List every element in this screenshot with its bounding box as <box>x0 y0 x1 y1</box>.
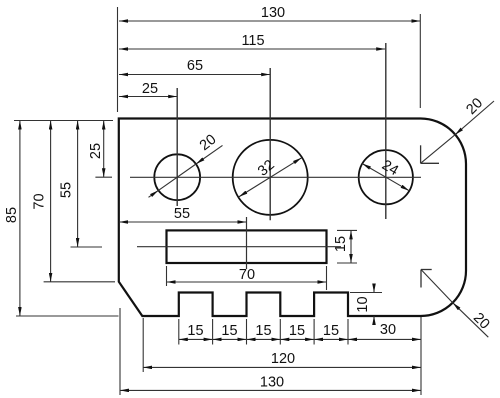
svg-text:15: 15 <box>221 323 237 339</box>
svg-text:55: 55 <box>59 182 75 198</box>
extension line left shared (top dims) <box>117 7 119 112</box>
svg-text:65: 65 <box>187 58 203 74</box>
teeth extension ticks <box>178 319 180 345</box>
dim 55 left <box>77 121 79 248</box>
svg-text:70: 70 <box>239 267 255 283</box>
extension line x=143 bottom (120) <box>142 318 144 372</box>
svg-text:130: 130 <box>261 5 285 21</box>
svg-text:15: 15 <box>333 236 349 252</box>
dim 70 slot width <box>167 281 327 283</box>
extension line right x=420 (130 top) <box>419 14 421 108</box>
svg-text:15: 15 <box>187 323 203 339</box>
svg-text:10: 10 <box>355 296 371 312</box>
vertical centerline circle C2 <box>269 68 271 220</box>
circle C1 diameter dim d20 leader <box>149 190 159 197</box>
svg-text:15: 15 <box>255 323 271 339</box>
hole circle C3 d24 <box>359 150 413 204</box>
extension line right x=421 bottom <box>420 317 422 395</box>
svg-text:55: 55 <box>174 206 190 222</box>
svg-text:85: 85 <box>4 207 20 223</box>
hole circle C2 d32 <box>233 140 308 215</box>
extension line top shared (left dims) <box>14 120 113 122</box>
circle C2 diameter dim 32 <box>239 158 302 197</box>
svg-text:25: 25 <box>142 81 158 97</box>
slot horizontal centerline <box>137 246 341 248</box>
dim 120 bottom <box>143 366 421 368</box>
svg-text:70: 70 <box>32 193 48 209</box>
vertical centerline circle C1 <box>176 88 178 206</box>
dim 130 top <box>119 20 420 22</box>
top-right fillet R20 leader <box>421 135 455 164</box>
svg-text:25: 25 <box>88 143 104 159</box>
top-right fillet R20 center mark <box>420 145 422 163</box>
dim 115 top <box>119 48 385 50</box>
svg-text:15: 15 <box>289 323 305 339</box>
extension line x=120 bottom (130) <box>119 308 121 395</box>
dim 10 tooth height <box>373 284 375 293</box>
dim 15 slot height right <box>337 229 357 231</box>
dim 130 bottom <box>120 389 421 391</box>
dim 15 x5 and 30 bottom <box>179 338 213 340</box>
dim 65 top <box>119 74 270 76</box>
vertical centerline circle C3 <box>385 43 387 219</box>
dim 70 left <box>50 121 52 282</box>
hole circle C1 d20 <box>154 154 200 200</box>
dim 55 slot position <box>119 221 247 223</box>
svg-text:115: 115 <box>241 33 264 49</box>
extension tick y=247 (55) <box>71 246 103 248</box>
horizontal centerline through circles <box>130 176 421 178</box>
slot extension lines below <box>166 266 168 286</box>
slot vertical centerline <box>246 217 248 269</box>
bottom-right fillet R20 center mark <box>420 270 422 288</box>
extension tick y=177.2 (25 left) <box>95 176 112 178</box>
dim 85 left <box>19 121 21 317</box>
circle C3 diameter dim 24 <box>362 164 409 191</box>
bottom-right fillet R20 leader <box>421 270 453 303</box>
extension line bottom y=316 (85) <box>16 315 119 317</box>
svg-text:15: 15 <box>323 323 339 339</box>
slot rectangle <box>167 230 327 263</box>
extension line y=281.8 (70) <box>44 281 115 283</box>
svg-text:120: 120 <box>271 351 295 367</box>
dim 25 top <box>119 96 177 98</box>
dim 25 left <box>103 121 105 178</box>
part outline <box>119 119 466 317</box>
svg-text:30: 30 <box>380 322 396 338</box>
svg-text:130: 130 <box>260 375 284 391</box>
